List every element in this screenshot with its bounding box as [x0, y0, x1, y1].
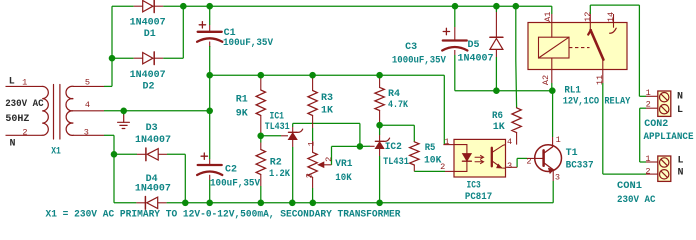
svg-text:C2: C2 — [225, 164, 237, 175]
svg-text:N: N — [677, 92, 683, 103]
svg-text:R1: R1 — [236, 95, 248, 106]
svg-text:C3: C3 — [405, 42, 417, 53]
svg-text:2: 2 — [645, 166, 650, 176]
svg-text:D1: D1 — [144, 29, 156, 40]
svg-text:X1 = 230V AC PRIMARY TO 12V-0-: X1 = 230V AC PRIMARY TO 12V-0-12V,500mA,… — [46, 209, 401, 220]
svg-text:1: 1 — [22, 78, 27, 88]
svg-text:D5: D5 — [468, 40, 480, 51]
svg-text:IC1: IC1 — [270, 111, 285, 122]
svg-text:L: L — [678, 156, 684, 167]
svg-text:RL1: RL1 — [564, 86, 581, 97]
svg-text:X1: X1 — [51, 146, 61, 157]
svg-text:R6: R6 — [492, 111, 503, 122]
svg-text:CON2: CON2 — [644, 119, 668, 130]
svg-text:12V,1CO RELAY: 12V,1CO RELAY — [563, 97, 631, 108]
svg-text:1: 1 — [444, 137, 449, 147]
svg-text:PC817: PC817 — [465, 192, 492, 203]
svg-text:R4: R4 — [388, 89, 400, 100]
svg-text:2: 2 — [646, 100, 651, 110]
svg-text:R3: R3 — [321, 93, 333, 104]
svg-text:R5: R5 — [425, 143, 436, 154]
svg-text:2: 2 — [526, 156, 531, 166]
svg-text:50HZ: 50HZ — [5, 114, 29, 125]
svg-text:N: N — [10, 139, 16, 150]
svg-text:11: 11 — [595, 75, 605, 85]
svg-text:1K: 1K — [321, 106, 333, 117]
svg-text:2: 2 — [324, 157, 334, 162]
svg-text:4: 4 — [507, 137, 512, 147]
svg-text:100uF,35V: 100uF,35V — [223, 38, 273, 49]
svg-text:10K: 10K — [335, 173, 351, 184]
svg-text:1: 1 — [306, 141, 316, 146]
svg-text:100uF,35V: 100uF,35V — [210, 179, 260, 190]
svg-text:10K: 10K — [424, 155, 441, 166]
svg-text:230V AC: 230V AC — [617, 195, 656, 206]
svg-text:1N4007: 1N4007 — [130, 17, 166, 28]
svg-text:IC2: IC2 — [385, 142, 402, 153]
svg-text:TL431: TL431 — [383, 157, 409, 168]
svg-text:1K: 1K — [493, 122, 505, 133]
svg-text:4: 4 — [85, 100, 90, 110]
svg-text:3: 3 — [555, 172, 560, 182]
svg-text:14: 14 — [606, 12, 616, 22]
svg-text:1: 1 — [645, 154, 650, 164]
svg-text:A1: A1 — [543, 12, 553, 22]
svg-text:5: 5 — [85, 78, 90, 88]
svg-text:1: 1 — [556, 135, 561, 145]
svg-text:1000uF,35V: 1000uF,35V — [392, 55, 446, 66]
svg-text:T1: T1 — [566, 148, 578, 159]
svg-text:1N4007: 1N4007 — [130, 70, 166, 81]
svg-text:IC3: IC3 — [467, 181, 481, 192]
svg-text:3: 3 — [84, 127, 89, 137]
svg-text:12: 12 — [583, 12, 593, 22]
svg-text:L: L — [677, 105, 683, 116]
svg-text:N: N — [678, 168, 684, 179]
svg-text:BC337: BC337 — [566, 160, 594, 171]
svg-text:D3: D3 — [146, 123, 158, 134]
svg-text:A2: A2 — [541, 75, 551, 85]
svg-text:1N4007: 1N4007 — [135, 183, 171, 194]
svg-text:9K: 9K — [236, 109, 248, 120]
svg-text:230V AC: 230V AC — [5, 99, 43, 110]
svg-text:3: 3 — [507, 161, 512, 171]
svg-text:4.7K: 4.7K — [388, 100, 408, 111]
svg-text:D2: D2 — [143, 81, 155, 92]
svg-text:CON1: CON1 — [617, 181, 642, 192]
svg-text:2: 2 — [22, 127, 27, 137]
svg-text:L: L — [9, 76, 15, 87]
svg-text:TL431: TL431 — [265, 122, 290, 133]
svg-text:APPLIANCE: APPLIANCE — [644, 132, 694, 143]
svg-text:VR1: VR1 — [335, 159, 352, 170]
svg-text:2: 2 — [440, 162, 445, 172]
svg-text:R2: R2 — [270, 157, 282, 168]
svg-text:3: 3 — [304, 173, 314, 178]
svg-text:1.2K: 1.2K — [269, 169, 290, 180]
svg-text:1N4007: 1N4007 — [458, 54, 494, 65]
svg-text:1: 1 — [646, 88, 651, 98]
svg-text:1N4007: 1N4007 — [135, 135, 171, 146]
